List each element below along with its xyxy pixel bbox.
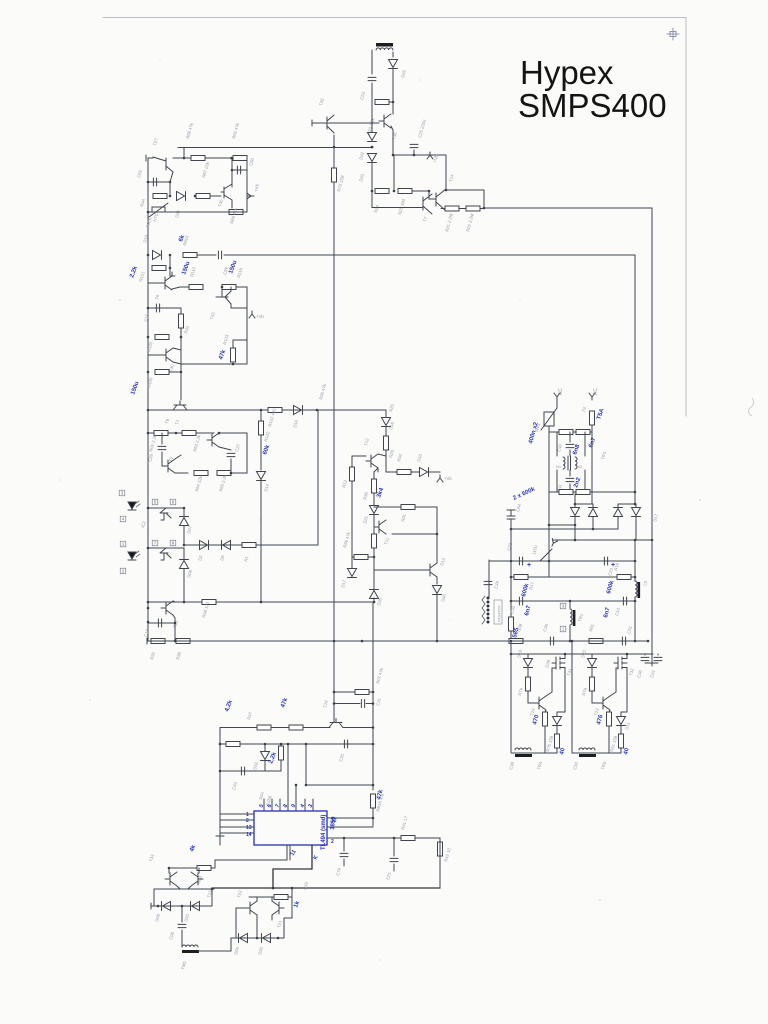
connector pin 3 bbox=[119, 490, 125, 496]
wire T10 base long bbox=[374, 569, 420, 571]
wire D21 down bbox=[373, 515, 375, 520]
wire T12 block left rail bbox=[351, 456, 353, 568]
wire T1 emit down bbox=[219, 447, 231, 450]
LED D4 opto bbox=[128, 551, 140, 560]
wire T13b emit bbox=[188, 886, 191, 889]
wire C15 row bbox=[148, 307, 181, 309]
diode D16 bbox=[382, 418, 391, 426]
wire D18-R79 bbox=[527, 668, 529, 677]
wire R25 to T14 base bbox=[429, 191, 436, 199]
wire R8 bottom bbox=[510, 631, 512, 641]
junction W560-x511 bbox=[510, 560, 513, 563]
wire T24 coll bbox=[546, 692, 552, 696]
wire T2 emit bbox=[175, 472, 188, 474]
wire R151 to T9 bbox=[169, 268, 171, 276]
junction R04 left bbox=[168, 867, 171, 870]
junction D41 left bbox=[169, 195, 172, 198]
diode D30 bbox=[263, 934, 271, 943]
wire T31 drain bbox=[564, 654, 566, 655]
diode D08b bbox=[163, 902, 171, 911]
wire R118 right bbox=[236, 286, 247, 288]
inductor L5 winding bbox=[635, 581, 637, 597]
wire D45 to junction bbox=[392, 69, 394, 102]
junction T33 bus bbox=[211, 888, 214, 891]
wire R33 bottom bbox=[180, 328, 182, 337]
wire C28 top bbox=[161, 433, 163, 444]
wire D50 bottom bbox=[574, 517, 576, 525]
wire W785 bbox=[306, 784, 373, 786]
capacitor C28 bbox=[158, 446, 166, 449]
transformer TR4 core bar bbox=[515, 754, 532, 757]
wire opto1 top bbox=[148, 507, 184, 509]
junction W744 left bbox=[219, 743, 222, 746]
wire T23 base h bbox=[592, 702, 598, 704]
wire R21 row bbox=[441, 208, 484, 210]
resistor R816 47k bbox=[371, 794, 376, 808]
diode D20c bbox=[588, 659, 597, 667]
resistor R16 bbox=[617, 575, 631, 580]
junction H1 drop bbox=[183, 157, 186, 160]
terminal +Vb top bbox=[427, 152, 433, 159]
wire block1 bottom bbox=[148, 211, 247, 213]
wire T36 emitter down bbox=[391, 126, 393, 130]
opto transistor IC2a bbox=[160, 508, 171, 520]
resistor R118 bbox=[222, 285, 236, 290]
wire T33 emit bbox=[177, 886, 180, 889]
wire D12 top bbox=[556, 712, 558, 716]
junction opto1 D07 bbox=[183, 507, 186, 510]
wire down to T36 collector bbox=[392, 102, 394, 114]
junction R35-R36 bbox=[373, 556, 376, 559]
wire bridge bottom Wa bbox=[549, 524, 575, 526]
junction rail D19 bbox=[147, 254, 150, 257]
wire R31 right bbox=[415, 506, 437, 508]
capacitor C41a bbox=[566, 478, 574, 481]
terminal +Vb block2 bbox=[249, 311, 255, 318]
resistor R51 158 bbox=[619, 734, 624, 748]
wire D14 down x262 bbox=[260, 481, 262, 602]
resistor R67 22k bbox=[196, 194, 210, 199]
junction T19-x373 bbox=[372, 726, 375, 729]
junction W433 mid bbox=[175, 432, 178, 435]
capacitor C08 bbox=[178, 924, 186, 927]
wire T32 gate bbox=[616, 667, 618, 669]
diode D41 bbox=[177, 192, 185, 201]
wire R30 top bbox=[373, 472, 375, 479]
wire R65 right bbox=[231, 472, 247, 474]
transistor T9 bbox=[160, 276, 172, 290]
junction diode row2 bbox=[181, 905, 184, 908]
resistor R50 bbox=[226, 742, 240, 747]
wire base T36 left bbox=[312, 122, 379, 124]
capacitor C33 bbox=[519, 597, 522, 605]
resistor R76 bbox=[543, 712, 548, 726]
wire C60 row bbox=[232, 169, 247, 171]
wire R103 join bbox=[233, 339, 247, 341]
wire x374 down bbox=[373, 557, 375, 568]
wire D16-R26 bbox=[385, 427, 387, 436]
svg-text:2: 2 bbox=[246, 818, 249, 824]
wire W771 bbox=[220, 770, 268, 772]
resistor R73 15R bbox=[332, 168, 337, 182]
wire D10 to +Vb bbox=[428, 471, 440, 473]
wire AC1 down bbox=[556, 400, 558, 408]
wire R23 right bbox=[389, 101, 393, 103]
junction C60 left bbox=[231, 169, 234, 172]
wire diode row T33 bbox=[151, 905, 212, 907]
wire T14 collector top bbox=[446, 190, 484, 208]
transformer TM5 core bar bbox=[182, 950, 199, 953]
junction R24 left bbox=[371, 190, 374, 193]
wire R67 to T35 bbox=[210, 195, 221, 197]
diode D35 bbox=[370, 591, 379, 599]
resistor R31 bbox=[401, 505, 415, 510]
junction rail C16 bbox=[147, 621, 150, 624]
wire T9 emit row bbox=[180, 286, 189, 288]
IC U1 pin wires up bbox=[287, 744, 289, 799]
diode D07 bbox=[180, 518, 189, 526]
wire x437 mid bbox=[436, 534, 438, 563]
svg-text:+: + bbox=[527, 562, 531, 569]
wire H3 to right edge bbox=[484, 207, 652, 209]
transistor T14 bbox=[436, 189, 446, 210]
wire W602 bbox=[148, 601, 374, 603]
svg-text:+Vb: +Vb bbox=[256, 314, 264, 319]
junction C31 left bbox=[333, 702, 336, 705]
switch 115V bbox=[540, 549, 552, 561]
junction rail R109 bbox=[147, 371, 150, 374]
wire W560 bbox=[489, 560, 635, 562]
wire center rail upper bbox=[333, 147, 335, 168]
junction opto mid bbox=[183, 544, 186, 547]
wire T22 base bbox=[236, 907, 245, 909]
junction C21-W838 bbox=[393, 837, 396, 840]
resistor R910 bbox=[183, 253, 197, 258]
junction W560-x635 bbox=[634, 560, 637, 563]
connector PA94P06 pin strip bbox=[482, 596, 490, 624]
junction x635-W641 bbox=[634, 640, 637, 643]
junction x511 bbox=[510, 640, 513, 643]
diode D50 bbox=[571, 508, 580, 516]
diode D21 bbox=[370, 506, 379, 514]
transistor T43 bbox=[216, 287, 231, 304]
wire C08 drop bbox=[181, 906, 183, 922]
transistor T6 bbox=[173, 401, 187, 410]
capacitor C16 bbox=[158, 619, 161, 627]
resistor R47 bbox=[257, 725, 271, 730]
junction opto2 rail bbox=[147, 547, 150, 550]
junction W602-x184 bbox=[183, 601, 186, 604]
diode D14 bbox=[257, 472, 266, 480]
wire x635 mid bbox=[634, 540, 636, 581]
transistor T26 bbox=[312, 115, 334, 133]
resistor R103 bbox=[231, 348, 236, 362]
wire R33 top bbox=[180, 308, 182, 314]
wire D08 top bbox=[183, 548, 185, 559]
wire T22 emit down bbox=[256, 915, 258, 938]
wire TR1 right down bbox=[392, 52, 394, 57]
junction opto1 rail bbox=[147, 507, 150, 510]
wire W601 bbox=[511, 600, 635, 602]
wire R04 up to pin bbox=[215, 845, 287, 868]
transformer TR1 core bar bbox=[376, 43, 393, 47]
junction C62 rail bbox=[147, 181, 150, 184]
wire R816 bottom bbox=[372, 808, 374, 826]
wire TR4 row bbox=[511, 752, 557, 754]
wire D07 top bbox=[183, 508, 185, 516]
wire pin 11 to bus bbox=[273, 869, 312, 888]
wire block1 mid v bbox=[169, 182, 171, 196]
inductor L5 core bbox=[638, 582, 641, 598]
junction rail T25 bbox=[147, 607, 150, 610]
wire +Vb stub block1 bbox=[247, 195, 250, 197]
wire T31 gate link bbox=[551, 668, 553, 692]
wire R36 right bbox=[368, 556, 374, 558]
wire bridge top node B bbox=[618, 503, 635, 505]
wire T35 collector vertical bbox=[231, 158, 233, 187]
junction C27-R65 bbox=[230, 472, 233, 475]
resistor R36 47k bbox=[354, 555, 368, 560]
wire C31 row bbox=[334, 703, 360, 705]
wire T10 base stub bbox=[420, 569, 425, 571]
svg-text:+Vb: +Vb bbox=[444, 476, 452, 481]
wire D53 bottom bbox=[635, 517, 637, 540]
wire R76 down bbox=[544, 726, 546, 753]
wire T43 emitter bbox=[230, 304, 232, 308]
wire T23 coll bbox=[610, 692, 616, 696]
transistor T1 bbox=[207, 433, 219, 447]
wire C40-C41 bottom bbox=[645, 662, 658, 664]
wire D18 top bbox=[527, 654, 529, 658]
diode D11 bbox=[617, 717, 626, 725]
capacitor C60 bbox=[237, 166, 240, 174]
wire T33 coll up bbox=[168, 868, 170, 873]
terminal left T33 bbox=[150, 903, 152, 909]
junction W641-x648 bbox=[647, 640, 650, 643]
junction W602 rail bbox=[147, 601, 150, 604]
wire T31 gate bbox=[552, 667, 556, 669]
resistor R38 bbox=[176, 639, 190, 644]
diode D51 bbox=[589, 509, 598, 517]
wire R51 down bbox=[620, 748, 622, 753]
junction EMI-x635 bbox=[634, 491, 637, 494]
wire x511 from W641 bbox=[510, 641, 512, 752]
wire D11 top bbox=[620, 712, 622, 716]
wire R26 to T12 bbox=[385, 450, 387, 456]
junction 540-575 bbox=[574, 539, 577, 542]
wire T33 right drop bbox=[211, 889, 213, 906]
resistor R78 bbox=[590, 677, 595, 691]
wire C40a top bbox=[569, 432, 571, 442]
capacitor C43 bbox=[241, 767, 244, 775]
wire T23 base bbox=[591, 698, 593, 703]
capacitor C27 bbox=[227, 453, 235, 456]
diode D52 bbox=[614, 509, 623, 517]
resistor R35b bbox=[372, 534, 377, 548]
wire T13b coll up bbox=[198, 868, 200, 873]
resistor R25 390 bbox=[398, 189, 412, 194]
junction W641-x437 bbox=[436, 640, 439, 643]
resistor R109 bbox=[155, 370, 169, 375]
wire +Vb node horizontal bbox=[393, 154, 446, 156]
wire T30 coll bbox=[173, 348, 181, 350]
wire W577 bbox=[511, 576, 635, 578]
wire D19 node down bbox=[169, 255, 171, 268]
wire V right x652 bbox=[651, 208, 653, 528]
capacitor C36 bbox=[550, 637, 553, 645]
junction D51 bottom bbox=[592, 528, 595, 531]
wire block3 right rail bbox=[246, 433, 248, 473]
capacitor C20 bbox=[344, 740, 347, 748]
transformer TR1b winding bbox=[570, 609, 572, 625]
wire W727 T19 row bbox=[220, 727, 330, 729]
wire block2 right rail bbox=[246, 287, 248, 364]
terminal +Vb T12 bbox=[437, 475, 443, 482]
wire W887 long bbox=[212, 887, 440, 889]
resistor R151 bbox=[152, 266, 166, 271]
diode D08 bbox=[180, 561, 189, 569]
wire T12 emit link bbox=[374, 468, 378, 472]
wire F2 down bbox=[591, 425, 593, 430]
wire T31 src down bbox=[564, 671, 566, 712]
transformer TR1b core bbox=[573, 610, 576, 626]
resistor R79 bbox=[526, 677, 531, 691]
resistor R60 bbox=[509, 639, 523, 644]
wire R25 right bbox=[412, 190, 429, 192]
transformer TR5 core bar bbox=[579, 754, 596, 757]
thermistor RV5 bbox=[541, 408, 557, 430]
wire D11-R51 bbox=[620, 726, 622, 734]
capacitor C21 bbox=[390, 858, 398, 861]
junction x549-Wa bbox=[548, 524, 551, 527]
junction rail W407 bbox=[147, 409, 150, 412]
resistor R44 bbox=[153, 194, 167, 199]
wire +Vb to T14 bbox=[445, 155, 447, 190]
junction W407-x262 bbox=[260, 409, 263, 412]
capacitor C41 bbox=[654, 657, 662, 660]
junction C60 top bbox=[230, 157, 233, 160]
junction W771 left bbox=[219, 770, 222, 773]
resistor R110 bbox=[189, 285, 203, 290]
junction T11-x437 bbox=[436, 533, 439, 536]
wire D35 bottom bbox=[373, 598, 375, 602]
wire D42 top bbox=[371, 102, 373, 132]
transformer TR1 winding bbox=[376, 48, 393, 50]
wire C28 bottom bbox=[161, 452, 163, 466]
connector pin 7 bbox=[152, 540, 158, 546]
IC U1 right pins bbox=[327, 817, 373, 819]
capacitor C40a bbox=[566, 444, 574, 447]
resistor R41 1k bbox=[401, 836, 415, 841]
wire T25 down bbox=[174, 618, 176, 641]
resistor R62 47k bbox=[233, 156, 247, 161]
capacitor C69 bbox=[218, 251, 221, 259]
wire x511 upper bbox=[510, 529, 512, 617]
connector pin 1 bbox=[120, 541, 126, 547]
wire x572 left rail right block bbox=[571, 641, 573, 753]
wire R102 top bbox=[260, 410, 262, 421]
wire T22 coll bbox=[256, 897, 258, 901]
wire R34 wire bbox=[386, 471, 397, 473]
wire x489 down bbox=[488, 560, 490, 598]
wire x549 to W577 bbox=[548, 561, 550, 577]
IC U1 top pins bbox=[263, 799, 265, 811]
wire T22 base drop bbox=[235, 908, 237, 938]
wire R109 right bbox=[169, 371, 181, 373]
wire x318 vertical bbox=[317, 410, 319, 545]
wire T43 collector bbox=[230, 287, 232, 291]
junction R07 right bbox=[372, 691, 375, 694]
wire T12 base row bbox=[352, 455, 366, 457]
junction x306-W744 bbox=[305, 743, 308, 746]
wire T25 coll bbox=[173, 601, 175, 602]
LED D3 opto bbox=[128, 501, 140, 510]
resistor R68 47k bbox=[191, 156, 205, 161]
wire T35 emitter down bbox=[231, 200, 233, 208]
wire EMI v left inner bbox=[556, 432, 558, 456]
junction H1-D42 bbox=[371, 146, 374, 149]
wire T26 to center rail bbox=[333, 135, 335, 147]
svg-text:1850: 1850 bbox=[330, 816, 337, 830]
wire C79 bottom bbox=[343, 859, 345, 866]
terminal rail top bbox=[145, 155, 147, 161]
resistor R32 bbox=[151, 639, 165, 644]
junction bridge B bbox=[634, 503, 637, 506]
wire R07 row bbox=[334, 691, 373, 693]
terminal pin 1 TR1 bbox=[560, 626, 566, 632]
wire T30 emit bbox=[173, 362, 181, 364]
wire D20 top bbox=[591, 654, 593, 658]
wire C41a top bbox=[569, 470, 571, 476]
connector pin 5 bbox=[152, 499, 158, 505]
junction W887-x292 bbox=[291, 887, 294, 890]
wire T12 emit bbox=[377, 468, 379, 472]
wire TR1b bottom bbox=[569, 626, 571, 641]
wire RV5 down bbox=[548, 426, 550, 577]
junction W602-x262 bbox=[260, 601, 263, 604]
capacitor C15 bbox=[156, 304, 159, 312]
junction C20-x373 bbox=[372, 743, 375, 746]
resistor R65 2.2k bbox=[217, 471, 231, 476]
wire EMI top row bbox=[549, 431, 592, 433]
wire block2 lower row bbox=[181, 363, 247, 365]
scan edge line top bbox=[103, 17, 686, 19]
wire diode row T22 bbox=[231, 937, 284, 939]
resistor R105 bbox=[155, 335, 169, 340]
resistor R26 bbox=[384, 436, 389, 450]
junction W577-x511 bbox=[510, 576, 513, 579]
transistor T33 bbox=[165, 872, 177, 886]
junction bridge A bbox=[574, 503, 577, 506]
wire T1 coll rail bbox=[219, 432, 247, 434]
wire D52 top bbox=[617, 504, 619, 507]
wire L5 bottom bbox=[634, 597, 636, 601]
junction D41 right bbox=[194, 195, 197, 198]
junction W407-x318 bbox=[316, 409, 319, 412]
connector pin 2 bbox=[120, 568, 126, 574]
wire W654 second bus bbox=[511, 653, 653, 655]
capacitor C10 bbox=[623, 597, 626, 605]
wire R102 down bbox=[260, 435, 262, 470]
junction bottom rail bbox=[147, 211, 150, 214]
wire C79 top bbox=[343, 838, 345, 851]
wire T33 bus drop left bbox=[153, 889, 155, 906]
wire C08 down bbox=[181, 930, 183, 947]
wire D12 branch bbox=[557, 711, 565, 713]
junction W641-x362 bbox=[361, 640, 364, 643]
wire D32 bottom bbox=[264, 761, 266, 771]
svg-text:Hypex: Hypex bbox=[520, 54, 614, 91]
